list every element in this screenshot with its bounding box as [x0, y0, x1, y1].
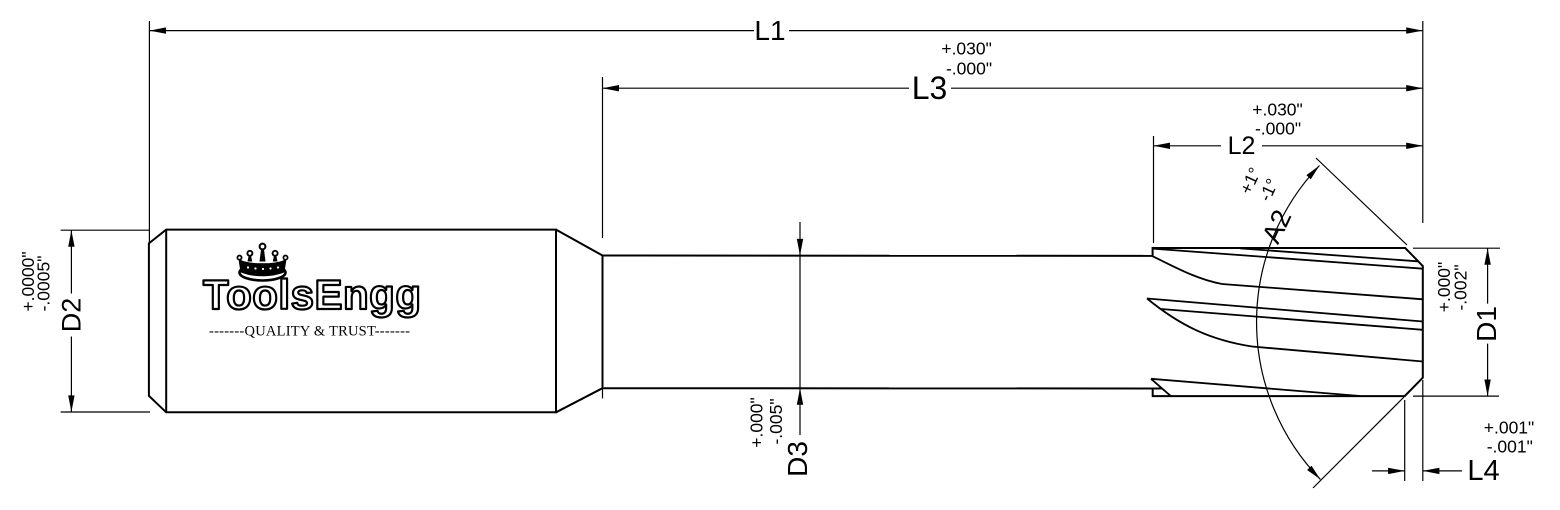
svg-text:L1: L1: [754, 15, 785, 46]
logo crown: [237, 244, 287, 281]
L4 extension line left: [1404, 400, 1406, 481]
flute 2 land edge: [1147, 299, 1423, 322]
svg-text:-.005": -.005": [766, 398, 786, 444]
shank end-face chamfer edge: [165, 230, 167, 413]
L2 extension line left: [1153, 136, 1155, 243]
L2 arrow right: [1406, 143, 1423, 149]
svg-text:-------QUALITY & TRUST-------: -------QUALITY & TRUST-------: [209, 323, 410, 339]
D3 arrow top: [797, 239, 803, 256]
extension stub below taper face: [602, 388, 604, 398]
L4 extension line right: [1422, 380, 1424, 481]
svg-text:+.000": +.000": [747, 397, 767, 448]
svg-text:L4: L4: [1467, 455, 1499, 487]
D3 dimension line: [799, 222, 801, 435]
neck top edge: [603, 255, 1153, 257]
L4 arrow right: [1423, 468, 1440, 474]
flute 1 land edge: [1153, 249, 1423, 269]
flute 2 runout curve: [1147, 299, 1252, 347]
shank body outline: [149, 230, 556, 413]
L3 arrow right: [1406, 85, 1423, 91]
L4 arrow left: [1388, 468, 1405, 474]
cutter head outline: [1153, 248, 1423, 396]
flute 2 margin line: [1161, 309, 1423, 330]
svg-text:L2: L2: [1228, 132, 1256, 160]
D1 dimension line: [1487, 248, 1489, 396]
D2 arrow bottom: [68, 395, 74, 412]
D2 arrow top: [68, 230, 74, 247]
L2 dimension line: [1154, 145, 1423, 147]
L3 arrow left: [603, 85, 620, 91]
D1 extension line top: [1413, 247, 1500, 249]
L4 dimension tail right: [1423, 470, 1462, 472]
L1 arrow right: [1406, 27, 1423, 33]
svg-text:+.001": +.001": [1484, 418, 1535, 438]
L1 extension line left: [148, 21, 150, 244]
flute wrap line top: [1240, 248, 1418, 261]
A2 dimension arc: [1257, 166, 1321, 480]
svg-text:D3: D3: [782, 441, 813, 477]
flute 1 runout curve: [1153, 256, 1223, 284]
svg-text:ToolsEngg: ToolsEngg: [203, 271, 421, 318]
L3 extension line left: [602, 77, 604, 238]
L1 arrow left: [149, 27, 166, 33]
svg-text:+.030": +.030": [941, 39, 992, 59]
L1 dimension line: [149, 30, 1422, 32]
neck bottom edge: [603, 387, 1163, 389]
A2 angle leg bottom: [1313, 397, 1404, 488]
shared right extension line: [1422, 21, 1424, 223]
L4 dimension tail left: [1372, 470, 1405, 472]
flute 3 land edge: [1151, 379, 1360, 396]
svg-text:-.000": -.000": [946, 59, 992, 79]
flute 1 groove line: [1222, 284, 1423, 299]
L2 arrow left: [1154, 143, 1171, 149]
A2 arc arrow top: [1306, 166, 1319, 180]
D1 extension line bottom: [1413, 395, 1499, 397]
svg-text:+.030": +.030": [1252, 100, 1303, 120]
svg-text:L3: L3: [912, 70, 948, 106]
flute 3 runout edge: [1151, 379, 1171, 396]
A2 angle leg top: [1316, 158, 1407, 245]
D1 arrow bottom: [1484, 380, 1490, 397]
taper shank-to-neck: [556, 230, 603, 413]
D2 extension line bottom: [61, 411, 150, 413]
D1 arrow top: [1484, 248, 1490, 265]
svg-text:D2: D2: [56, 298, 86, 333]
svg-text:D1: D1: [1471, 306, 1502, 342]
svg-text:-.001": -.001": [1487, 437, 1533, 457]
A2 arc arrow bottom: [1307, 466, 1320, 480]
svg-text:-.002": -.002": [1451, 264, 1471, 310]
D2 extension line top: [61, 229, 150, 231]
flute 2 groove line: [1252, 347, 1423, 362]
L3 dimension line: [603, 87, 1423, 89]
D2 dimension line: [70, 230, 72, 412]
svg-text:-.0005": -.0005": [34, 256, 54, 312]
svg-text:-.000": -.000": [1255, 119, 1301, 139]
D3 arrow bottom: [797, 388, 803, 405]
